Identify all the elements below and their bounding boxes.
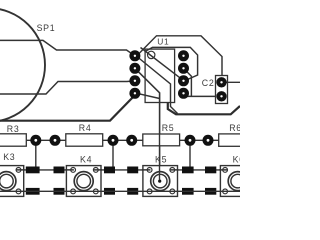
wire loop outer (pin1 to C2 top) bbox=[139, 36, 222, 83]
pad K6 left bottom bbox=[205, 188, 216, 195]
svg-text:R3: R3 bbox=[7, 124, 20, 134]
pad R4-R5 b bbox=[126, 135, 137, 146]
resistor R5 bbox=[143, 134, 180, 146]
pad K3 right top bbox=[26, 167, 40, 174]
svg-text:SP1: SP1 bbox=[37, 23, 56, 33]
pin1 marker U1 bbox=[148, 51, 155, 58]
wire resistor row bbox=[26, 139, 218, 141]
wire thick left to U1 pin4 bbox=[0, 95, 136, 121]
button K6 bbox=[219, 166, 256, 197]
pad K5 right top bbox=[182, 167, 194, 174]
pad U1-7 bbox=[178, 63, 189, 74]
U1 body bbox=[145, 49, 175, 102]
wire pad2A down to K4 bbox=[112, 140, 114, 170]
wire diag U1 pin2 to K5 bbox=[135, 68, 160, 179]
pad K4 left top bbox=[54, 167, 65, 174]
wire button row top bbox=[0, 169, 240, 171]
wire pad3A down to K5 bbox=[189, 140, 191, 170]
pad U1-8 bbox=[178, 50, 189, 61]
wire R5 vertical through rect bbox=[159, 134, 161, 146]
pad K4 right top bbox=[104, 167, 115, 174]
pad U1-2 bbox=[129, 63, 140, 74]
pad C2 bottom bbox=[216, 91, 226, 101]
wire diag U1 pin5 down bbox=[184, 68, 192, 96]
pad K4 right bottom bbox=[104, 188, 115, 195]
button K5 bbox=[142, 166, 179, 197]
pad R5-R6 b bbox=[203, 135, 214, 146]
pad R4-R5 a bbox=[108, 135, 119, 146]
svg-text:R5: R5 bbox=[162, 123, 175, 133]
wire button row bottom bbox=[0, 190, 240, 192]
resistor R4 bbox=[66, 134, 103, 146]
svg-text:R4: R4 bbox=[79, 123, 92, 133]
pad R3-R4 b bbox=[50, 135, 61, 146]
speaker SP1 bbox=[0, 8, 45, 122]
svg-text:K4: K4 bbox=[80, 155, 92, 165]
wire diagonal to pin6 bbox=[141, 48, 184, 81]
svg-text:U1: U1 bbox=[157, 37, 169, 47]
wire diag U1 pin1 down bbox=[138, 57, 178, 114]
button K4 bbox=[65, 166, 102, 197]
wire speaker bottom to U1 pin3 bbox=[0, 81, 135, 94]
svg-text:K6: K6 bbox=[233, 154, 240, 164]
pad U1-1 bbox=[129, 50, 140, 61]
button K3 bbox=[0, 166, 25, 197]
wire thick bottom right bbox=[168, 103, 240, 115]
wire pad1A down to K3 bbox=[35, 140, 37, 170]
pad R5-R6 a bbox=[185, 135, 196, 146]
pad U1-4 bbox=[129, 88, 140, 99]
svg-text:C2: C2 bbox=[202, 78, 215, 88]
pad K5 left top bbox=[127, 167, 138, 174]
pad K5 left bottom bbox=[127, 188, 138, 195]
wire U1 pin5 to C2 bottom bbox=[184, 95, 222, 97]
resistor R3 bbox=[0, 134, 26, 146]
svg-text:R6: R6 bbox=[229, 123, 240, 133]
pad K3 right bottom bbox=[26, 188, 40, 195]
pad K6 left top bbox=[205, 167, 216, 174]
capacitor C2 bbox=[216, 76, 228, 104]
pad U1-5 bbox=[178, 88, 189, 99]
pad R3-R4 a bbox=[30, 135, 41, 146]
pad C2 top bbox=[216, 77, 226, 87]
wire diag U1 pin4 shallow bbox=[137, 93, 160, 98]
pad U1-3 bbox=[129, 75, 140, 86]
svg-text:K3: K3 bbox=[3, 152, 15, 162]
pad K4 left bottom bbox=[54, 188, 65, 195]
pad K5 right bottom bbox=[182, 188, 194, 195]
resistor R6 bbox=[219, 134, 243, 146]
wire speaker top to U1 pin1 bbox=[0, 40, 135, 55]
svg-text:K5: K5 bbox=[155, 155, 167, 165]
wire C2 top to edge bbox=[222, 81, 241, 83]
pad U1-6 bbox=[178, 75, 189, 86]
wire loop inner (pin1 to pin6) bbox=[145, 47, 198, 81]
